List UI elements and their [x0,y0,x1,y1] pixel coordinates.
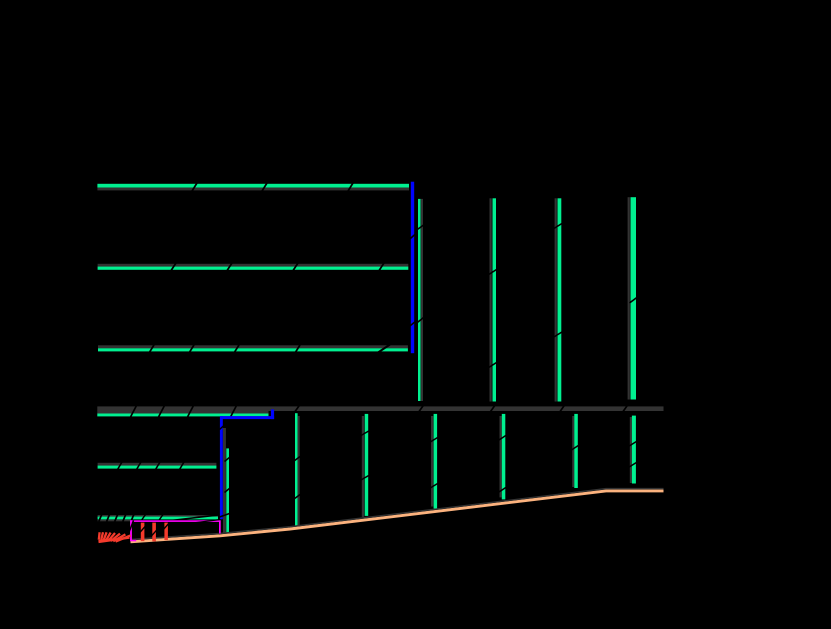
endcap middle wheel bar V1 [489,198,497,401]
red chamber bar R2 [152,523,157,542]
lower green bar W2 [430,414,437,509]
magenta TGC box outline [129,520,220,542]
long gray yoke line [97,405,663,414]
endcap inner green bar at x419 with gray shadow [417,199,423,401]
red chamber bar R1 [140,523,145,542]
endcap outer wheel bar V3 [628,197,637,399]
red fan apex wedge [99,538,130,542]
middle left chamber bar [98,462,217,470]
barrel RPC blue bar [410,182,416,354]
barrel middle chamber bar BML [98,263,409,271]
red fan of small chambers near apex [99,532,131,541]
orange shielding polyline [131,489,664,542]
lower green bar W5 [629,416,636,484]
red chamber bar R3 [163,523,168,541]
lower green bar W1 [361,414,369,517]
lower blue RPC step [220,409,275,519]
barrel outer chamber bar BOL (top) [97,183,409,191]
lower green bar W3 [499,414,506,500]
lower green bar W-1 next to blue (with gray shadow) [220,428,231,533]
barrel inner chamber bar BIL [98,345,408,354]
bottom left chamber strip [98,514,220,521]
lower green bar W0 [294,413,300,526]
endcap middle wheel bar V2 [554,198,562,401]
inner left chamber strip under yoke line [97,406,268,418]
lower green bar W4 [572,414,579,488]
